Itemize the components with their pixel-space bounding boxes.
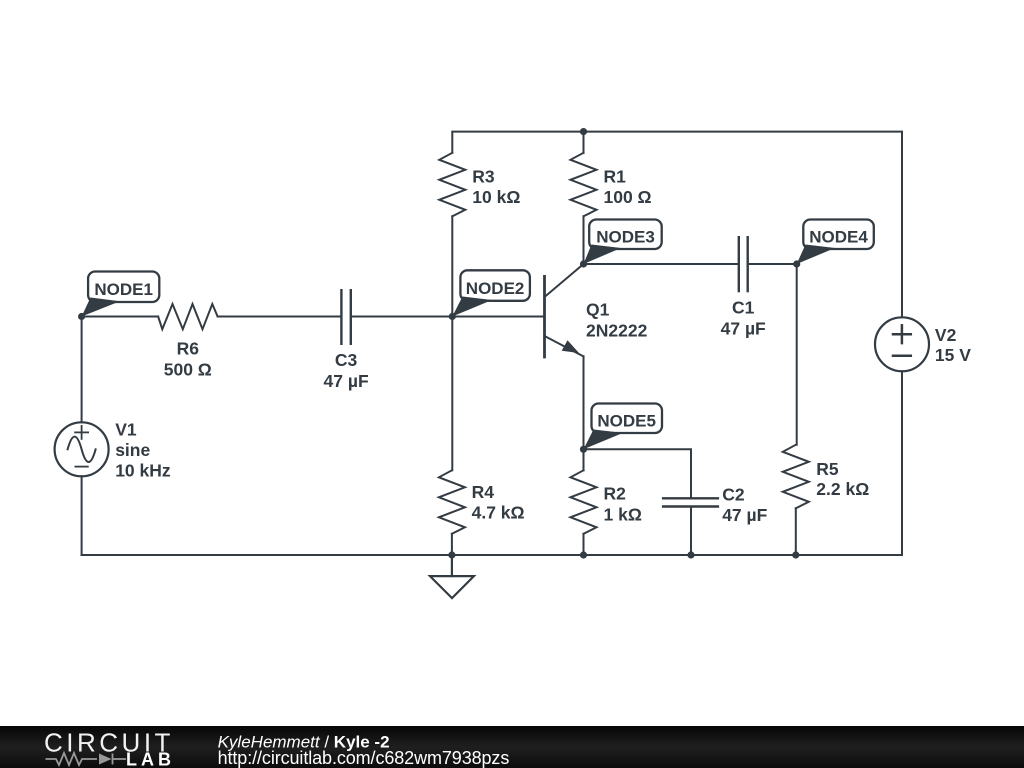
svg-text:15 V: 15 V	[935, 345, 971, 365]
resistor R6	[158, 304, 218, 329]
svg-text:R1: R1	[604, 167, 627, 187]
svg-text:47 µF: 47 µF	[324, 371, 369, 391]
capacitor C1	[739, 237, 748, 291]
source V1	[55, 422, 109, 476]
wire base NODE2 to Q1	[452, 316, 544, 318]
wire R2 top NODE5	[583, 449, 585, 470]
svg-text:C1: C1	[732, 298, 755, 318]
node A top junction dot	[580, 128, 587, 135]
wire C1 to NODE4	[748, 263, 797, 265]
wire NODE5 to C2	[584, 449, 692, 497]
svg-text:NODE1: NODE1	[94, 280, 153, 299]
svg-text:R2: R2	[604, 484, 627, 504]
wire R5 bottom to ground rail	[795, 508, 797, 555]
svg-text:V1: V1	[115, 419, 137, 439]
svg-text:NODE2: NODE2	[466, 279, 525, 298]
label V1 value	[115, 419, 171, 480]
wire V1 top	[81, 317, 83, 423]
node dot bottom R2	[580, 551, 587, 558]
node NODE5	[580, 404, 662, 453]
label R4 value	[472, 482, 525, 523]
wire C2 to ground rail	[690, 508, 692, 556]
svg-text:R4: R4	[472, 482, 495, 502]
wire top rail	[452, 132, 902, 318]
svg-text:4.7 kΩ: 4.7 kΩ	[472, 503, 525, 523]
label R5 value	[816, 459, 869, 499]
svg-text:NODE5: NODE5	[597, 412, 656, 431]
svg-text:NODE4: NODE4	[809, 228, 868, 247]
node NODE3	[580, 220, 662, 268]
svg-text:LAB: LAB	[126, 749, 175, 768]
wire NODE3 to C1	[584, 263, 739, 265]
resistor R5	[783, 445, 809, 509]
label C3 value	[324, 350, 369, 391]
node NODE2	[449, 270, 530, 320]
label R6 value	[164, 338, 212, 379]
node dot bottom C2	[687, 551, 694, 558]
footer logo squiggle	[46, 753, 127, 765]
wire NODE1 row: source to R6	[82, 316, 159, 318]
label R2 value	[604, 484, 642, 525]
svg-text:V2: V2	[935, 325, 957, 345]
wire R1 top	[583, 132, 585, 153]
wire C3 to NODE2	[351, 316, 453, 318]
svg-text:R6: R6	[177, 338, 200, 358]
svg-text:10 kHz: 10 kHz	[115, 460, 171, 480]
label R1 value	[604, 167, 652, 208]
svg-text:500 Ω: 500 Ω	[164, 359, 212, 379]
svg-text:10 kΩ: 10 kΩ	[472, 187, 520, 207]
wire R1 bottom to NODE3	[583, 216, 585, 264]
wire R3 bottom to R4 top (left column through NODE2)	[451, 216, 453, 470]
label C1 value	[721, 298, 766, 339]
capacitor C2	[663, 498, 718, 506]
resistor R2	[571, 470, 597, 534]
svg-text:2.2 kΩ: 2.2 kΩ	[816, 479, 869, 499]
svg-text:2N2222: 2N2222	[586, 321, 648, 341]
node NODE4	[793, 220, 874, 268]
source V2	[875, 317, 929, 371]
svg-text:R3: R3	[472, 167, 495, 187]
wire R2 bottom to ground rail	[583, 534, 585, 555]
label C2 value	[722, 485, 767, 526]
capacitor C3	[341, 290, 350, 344]
wire NODE4 down to R5	[796, 264, 798, 445]
node dot bottom R4	[448, 551, 455, 558]
label V2 value	[935, 325, 971, 365]
svg-text:C2: C2	[722, 485, 745, 505]
node NODE1	[78, 272, 159, 321]
svg-text:100 Ω: 100 Ω	[604, 187, 652, 207]
resistor R3	[439, 153, 465, 217]
wire V1 bottom	[81, 476, 83, 555]
label R3 value	[472, 167, 520, 208]
wire R6 to C3	[218, 316, 342, 318]
svg-text:NODE3: NODE3	[596, 228, 655, 247]
svg-text:http://circuitlab.com/c682wm79: http://circuitlab.com/c682wm7938pzs	[218, 748, 510, 768]
svg-text:C3: C3	[335, 350, 358, 370]
resistor R4	[439, 470, 465, 534]
svg-text:Q1: Q1	[586, 300, 610, 320]
wire V2 bottom	[901, 371, 903, 555]
footer bar	[0, 726, 1024, 768]
wire ground rail	[82, 554, 902, 556]
svg-text:47 µF: 47 µF	[722, 505, 767, 525]
label Q1 value	[586, 300, 648, 341]
svg-text:sine: sine	[115, 440, 150, 460]
svg-text:47 µF: 47 µF	[721, 319, 766, 339]
svg-text:R5: R5	[816, 459, 839, 479]
node dot bottom R5	[792, 551, 799, 558]
wire Q1 emitter to NODE5	[583, 356, 585, 449]
transistor Q1	[545, 264, 584, 357]
svg-text:1 kΩ: 1 kΩ	[604, 505, 642, 525]
wire R4 bottom to ground rail	[451, 534, 453, 555]
ground	[430, 555, 474, 598]
resistor R1	[571, 153, 597, 217]
